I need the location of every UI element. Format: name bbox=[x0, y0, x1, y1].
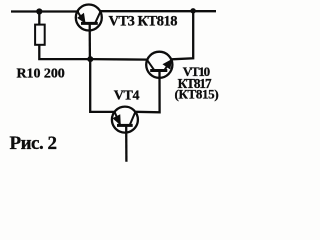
wire R10 top lead bbox=[38, 12, 40, 25]
node junction dot at R10 top bbox=[36, 8, 42, 14]
node junction dot at VT10 emitter / rail bbox=[190, 8, 195, 13]
node junction dot B (R10 / VT3 base / VT10 collector) bbox=[87, 56, 93, 62]
svg-text:VT4: VT4 bbox=[114, 89, 140, 104]
transistor VT10 KT817 (NPN, collector left, emitter right, base down) bbox=[146, 52, 172, 78]
svg-text:VT3 КТ818: VT3 КТ818 bbox=[109, 13, 178, 29]
svg-text:Рис. 2: Рис. 2 bbox=[10, 133, 57, 154]
transistor VT4 (emitter left, collector right, base down) bbox=[112, 107, 138, 133]
svg-text:(КТ815): (КТ815) bbox=[175, 86, 219, 101]
wire node B to VT10 collector bbox=[90, 58, 147, 61]
wire VT10 base lead down and left to VT4 collector bbox=[136, 71, 160, 112]
svg-text:R10 200: R10 200 bbox=[17, 67, 65, 82]
wire VT3 base lead down to node B bbox=[89, 24, 92, 59]
transistor VT3 KT818 (PNP, emitter left, collector right, base down) bbox=[76, 5, 102, 31]
wire R10 bottom lead bbox=[39, 46, 90, 60]
wire VT10 emitter to top rail bbox=[172, 11, 194, 59]
wire node B down to corner and right to VT4 emitter bbox=[90, 59, 115, 112]
wire VT4 base lead down bbox=[125, 126, 128, 162]
resistor R10 bbox=[35, 25, 45, 45]
wire top rail right segment bbox=[100, 10, 216, 12]
wire top rail left segment bbox=[11, 10, 79, 12]
